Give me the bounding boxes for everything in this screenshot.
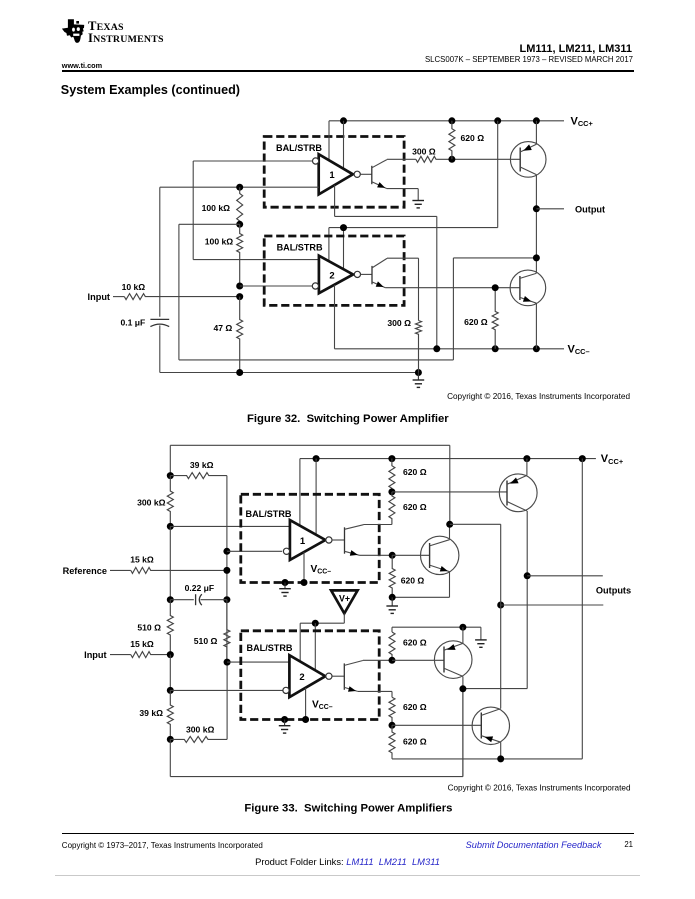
svg-text:300 Ω: 300 Ω <box>387 318 411 328</box>
wire V+ to U4 strobe pins <box>300 613 344 670</box>
node feedback junction fig33 <box>446 521 501 709</box>
resistor 39 kOhm (lower) <box>139 690 173 739</box>
svg-text:Figure 32. Switching Power Am: Figure 32. Switching Power Amplifier <box>247 413 449 425</box>
svg-text:VCC–: VCC– <box>568 343 590 356</box>
footer copyright <box>62 841 263 850</box>
product folder links <box>0 856 695 867</box>
transistor Q5 PNP (top) <box>499 474 537 512</box>
node feedback divider junction <box>236 221 243 228</box>
wire U1 collector to 300 ohm <box>387 158 416 160</box>
node Q7 collector junction <box>459 685 466 692</box>
wire Q2 emitter to VCC- <box>535 303 537 349</box>
svg-text:620 Ω: 620 Ω <box>403 736 427 746</box>
svg-text:V+: V+ <box>339 593 350 603</box>
svg-text:2: 2 <box>329 271 334 282</box>
transistor Q2 NPN (lower) <box>510 270 546 306</box>
wire U4 emitter to 620 R4 <box>358 691 392 697</box>
node U2 inverting input <box>236 283 312 290</box>
wire non-inverting input net U1 <box>160 184 319 191</box>
svg-text:Outputs: Outputs <box>596 585 631 595</box>
transistor Q6 NPN (second) <box>421 536 459 574</box>
node output 2 <box>497 602 603 609</box>
capacitor 0.1 uF <box>120 187 169 372</box>
svg-text:620 Ω: 620 Ω <box>403 702 427 712</box>
svg-text:300 kΩ: 300 kΩ <box>186 724 215 734</box>
pin U4 V- stub <box>302 688 309 723</box>
node input node <box>236 293 243 300</box>
pin output U2 (circle) <box>354 271 360 277</box>
wire Q6 emitter to ground <box>392 572 449 598</box>
svg-text:BAL/STRB: BAL/STRB <box>246 509 292 519</box>
wire Q7 emitter up to ground line <box>462 627 464 643</box>
footer feedback link <box>466 840 602 850</box>
transistor U2 output NPN <box>361 258 388 287</box>
wire bottom feedback line <box>170 689 463 777</box>
svg-text:Input: Input <box>88 292 110 302</box>
transistor Q7 PNP (third) <box>434 641 472 679</box>
label Outputs <box>596 585 631 595</box>
transistor U3 output NPN <box>332 525 364 556</box>
part numbers <box>519 43 632 55</box>
resistor 100 kOhm (lower) <box>205 224 243 286</box>
svg-text:0.22 μF: 0.22 μF <box>185 583 215 593</box>
TI wordmark <box>88 21 164 46</box>
pin inverting input U2 (circle) <box>312 283 318 289</box>
section title <box>61 83 240 97</box>
faint bottom line <box>55 875 640 876</box>
resistor 620 Ohm R5 (fig33) <box>389 697 427 725</box>
wire Q1 collector to output node <box>535 175 537 274</box>
svg-text:VCC+: VCC+ <box>601 453 624 466</box>
wire strobe pins U2 to VCC+ <box>329 121 498 269</box>
wire U3 collector to 620 ohm <box>364 524 392 526</box>
pin output U1 (circle) <box>354 171 360 177</box>
label copyright figure 32 <box>447 392 630 401</box>
svg-text:15 kΩ: 15 kΩ <box>130 639 154 649</box>
wire U2 emitter to Q2 base <box>385 287 520 289</box>
node U3 inverting line <box>223 548 282 555</box>
svg-text:Copyright © 2016, Texas Instru: Copyright © 2016, Texas Instruments Inco… <box>448 783 631 792</box>
op-amp U2 comparator 2 <box>319 256 353 294</box>
svg-text:100 kΩ: 100 kΩ <box>205 236 234 246</box>
pin inverting input U3 (circle) <box>283 548 289 554</box>
svg-text:Output: Output <box>575 204 605 214</box>
ground U3 (pin) <box>279 579 291 596</box>
label VCC- (U3) <box>311 564 332 576</box>
resistor 300 Ohm (lower) <box>387 318 421 373</box>
node VCC+ rail (Figure 33) <box>300 455 596 462</box>
node reference node <box>223 567 230 574</box>
resistor 620 Ohm R6 (fig33) <box>389 725 427 755</box>
svg-text:39 kΩ: 39 kΩ <box>190 460 214 470</box>
svg-text:10 kΩ: 10 kΩ <box>122 282 146 292</box>
svg-text:VCC+: VCC+ <box>571 115 594 128</box>
wire 620 R6 to bottom line <box>392 755 582 759</box>
svg-text:1: 1 <box>300 536 306 547</box>
wire strobe pins U3 to VCC+ <box>300 459 316 535</box>
wire 39k to U3 inverting input <box>226 476 228 662</box>
pin inverting input U1 (circle) <box>313 158 319 164</box>
svg-text:Figure 33. Switching Power Am: Figure 33. Switching Power Amplifiers <box>244 802 452 814</box>
wire top feedback line (Figure 33) <box>170 445 450 524</box>
svg-text:0.1 μF: 0.1 μF <box>120 318 145 328</box>
node 39k top junction <box>167 472 174 479</box>
node Q6 base node <box>389 552 430 559</box>
svg-text:47 Ω: 47 Ω <box>213 323 232 333</box>
caption Figure 32 <box>247 413 449 425</box>
svg-text:100 kΩ: 100 kΩ <box>202 203 231 213</box>
comparator U1 package (dashed box BAL/STRB) <box>264 137 404 208</box>
resistor 620 Ohm (upper pull-up) <box>449 121 484 160</box>
power symbol V+ <box>331 590 358 613</box>
ground main (Figure 32) <box>413 373 425 388</box>
svg-text:620 Ω: 620 Ω <box>461 133 485 143</box>
wire VCC+ right rail down <box>581 459 583 759</box>
pin output U3 (circle) <box>326 537 332 543</box>
ground right (fig33) <box>475 627 487 647</box>
svg-text:2: 2 <box>299 672 304 683</box>
resistor 620 Ohm (lower) <box>464 284 499 349</box>
comparator U4 package (dashed box BAL/STRB) <box>241 631 379 720</box>
wire U3 emitter to Q6 base <box>360 554 393 556</box>
label Output <box>575 204 605 214</box>
svg-text:BAL/STRB: BAL/STRB <box>276 143 322 153</box>
node Q8 base node <box>389 722 482 729</box>
label Reference <box>63 566 107 576</box>
svg-text:VCC–: VCC– <box>312 699 333 711</box>
svg-text:BAL/STRB: BAL/STRB <box>277 242 323 252</box>
capacitor 0.22 uF <box>167 583 231 605</box>
wire left rail upper <box>169 526 171 599</box>
svg-text:620 Ω: 620 Ω <box>464 317 488 327</box>
wire Q5 emitter to VCC+ <box>526 459 528 476</box>
node output 1 <box>524 572 603 579</box>
resistor 510 Ohm (right) <box>194 600 230 662</box>
svg-text:300 kΩ: 300 kΩ <box>137 498 166 508</box>
transistor Q1 PNP (upper) <box>510 142 546 178</box>
pin inverting input U4 (circle) <box>283 687 289 693</box>
node U4 inverting line <box>167 687 283 694</box>
wire Q8 emitter to bottom line <box>497 742 504 762</box>
transistor U4 output NPN <box>332 661 363 692</box>
label Input (Figure 32) <box>88 292 110 302</box>
resistor 47 Ohm <box>213 297 242 373</box>
pin U3 V- stub <box>301 552 308 586</box>
resistor 620 Ohm R3 (fig33) <box>389 555 424 597</box>
label copyright figure 33 <box>448 783 631 792</box>
pin output U4 (circle) <box>326 673 332 679</box>
resistor 620 Ohm R2 (fig33) <box>389 492 427 525</box>
svg-text:620 Ω: 620 Ω <box>403 467 427 477</box>
node input node fig33 <box>167 651 174 690</box>
resistor 15 kOhm (reference) <box>110 554 227 573</box>
transistor U1 output NPN <box>360 160 387 189</box>
op-amp U4 comparator 2 <box>289 655 325 697</box>
node Q7 base node <box>389 657 445 664</box>
resistor 510 Ohm (left) <box>137 600 173 655</box>
svg-text:620 Ω: 620 Ω <box>403 502 427 512</box>
wire 620 R4 top line <box>392 627 481 632</box>
svg-text:510 Ω: 510 Ω <box>137 622 161 632</box>
node 300k lower junction <box>167 736 174 743</box>
label Input (Figure 33) <box>84 650 106 660</box>
label VCC+ (Figure 33) <box>601 453 624 466</box>
svg-text:Input: Input <box>84 650 106 660</box>
label VCC+ (Figure 32) <box>571 115 594 128</box>
wire strobe pins U1 to VCC+ <box>329 121 344 169</box>
svg-text:Copyright © 2016, Texas Instru: Copyright © 2016, Texas Instruments Inco… <box>447 392 630 401</box>
op-amp U3 comparator 1 <box>290 520 326 560</box>
wire U1 emitter to ground <box>387 189 418 201</box>
svg-text:620 Ω: 620 Ω <box>401 575 425 585</box>
wire U4 collector to Q7 base node <box>363 659 392 661</box>
comparator U3 package (dashed box BAL/STRB) <box>241 494 379 582</box>
resistor 10 kOhm input <box>113 282 240 300</box>
wire divider junction to output feedback <box>179 224 537 360</box>
svg-text:VCC–: VCC– <box>311 564 332 576</box>
op-amp U1 comparator 1 <box>319 154 353 194</box>
comparator U2 package (dashed box BAL/STRB) <box>264 236 404 305</box>
wire inverting input net U1 <box>193 161 312 260</box>
ground U4 (pin) <box>279 716 291 733</box>
wire Q1 emitter to VCC+ <box>535 121 537 144</box>
resistor 300 kOhm (lower) <box>170 724 227 742</box>
node Q7 emitter junction <box>459 624 466 631</box>
svg-text:15 kΩ: 15 kΩ <box>130 554 154 564</box>
resistor 620 Ohm R1 (fig33) <box>389 459 427 492</box>
wire ground return line <box>160 369 422 376</box>
node U3 non-inverting node <box>167 523 290 530</box>
footer rule <box>62 833 634 835</box>
svg-text:Reference: Reference <box>63 566 107 576</box>
wire Q5 collector down to output 1 <box>463 511 527 689</box>
wire link to U2 non-inverting input <box>193 259 319 261</box>
node VCC- rail (Figure 32) <box>335 345 565 352</box>
wire 300 ohm node to Q1 base <box>448 156 520 163</box>
wire Q6 collector up <box>449 524 451 539</box>
caption Figure 33 <box>244 802 452 814</box>
wire Q7 collector down <box>462 676 464 776</box>
wire U1 V- pin to VCC- rail <box>335 185 437 349</box>
wire U2 V- to VCC- rail <box>334 285 336 349</box>
svg-text:1: 1 <box>329 170 335 181</box>
svg-text:510 Ω: 510 Ω <box>194 636 218 646</box>
svg-text:39 kΩ: 39 kΩ <box>139 708 163 718</box>
resistor 300 kOhm (upper) <box>137 476 173 527</box>
resistor 39 kOhm (upper) <box>170 460 227 478</box>
wire 300k to U4 non-inverting node <box>224 659 290 740</box>
doc number line <box>425 55 633 64</box>
resistor 620 Ohm R4 (fig33) <box>389 632 427 660</box>
svg-text:BAL/STRB: BAL/STRB <box>247 643 293 653</box>
label VCC- (U4) <box>312 699 333 711</box>
TI logo mark <box>61 16 88 48</box>
wire U2 collector to 300 ohm <box>387 258 419 320</box>
ground Q6 emitter <box>386 594 398 614</box>
label VCC- (Figure 32) <box>568 343 590 356</box>
resistor 100 kOhm (upper) <box>202 187 243 224</box>
node Output <box>533 205 564 261</box>
ground U1 emitter <box>412 200 424 208</box>
www.ti.com <box>62 61 102 70</box>
resistor 300 Ohm (upper) <box>412 146 452 162</box>
node Q5 base node <box>388 488 507 495</box>
svg-text:300 Ω: 300 Ω <box>412 146 436 156</box>
transistor Q8 PNP (bottom) <box>472 707 509 744</box>
resistor 15 kOhm (input) <box>110 639 170 658</box>
node VCC+ rail (Figure 32) <box>329 117 564 124</box>
svg-text:620 Ω: 620 Ω <box>403 638 427 648</box>
page number <box>624 840 633 849</box>
header rule <box>62 70 634 72</box>
